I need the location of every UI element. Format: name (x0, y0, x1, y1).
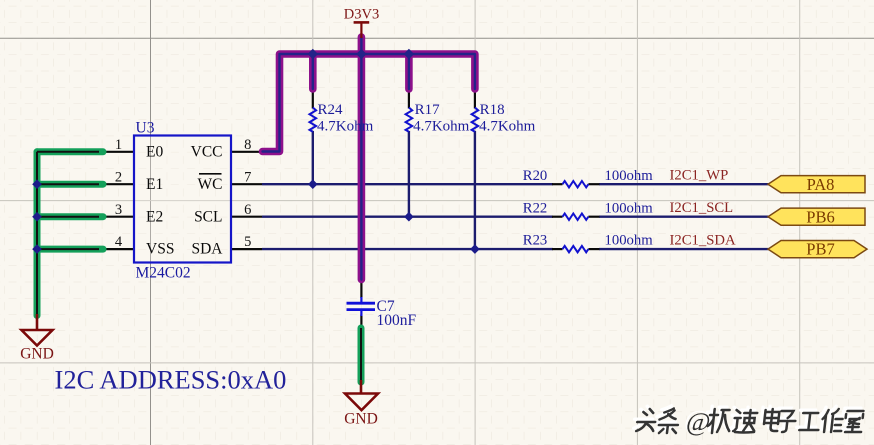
junction dots on rows (308, 179, 480, 254)
svg-text:U3: U3 (136, 120, 155, 137)
条 (658, 409, 680, 434)
pull-up resistor labels (317, 102, 536, 134)
power bus purple: main path D3V3 rail (263, 37, 475, 280)
pin stubs black: chip left pins 1-4 (101, 89, 600, 328)
wire: navy horizontal row WP (pin7 to PA8) (262, 131, 769, 249)
速 (733, 410, 758, 433)
工 (797, 410, 818, 427)
svg-text:3: 3 (115, 202, 122, 218)
wire: R24 vertical to WP row (312, 131, 314, 184)
resistor R24 zigzag (309, 108, 588, 253)
子 (774, 408, 793, 429)
chip U3 body (134, 136, 231, 263)
WC overline (199, 173, 222, 175)
svg-text:R20: R20 (523, 168, 547, 184)
svg-text:I2C ADDRESS:0xA0: I2C ADDRESS:0xA0 (55, 365, 287, 395)
svg-text:M24C02: M24C02 (136, 265, 191, 282)
capacitor C7 leads (360, 279, 362, 298)
port PB6 (768, 207, 865, 226)
作 (818, 406, 841, 429)
resistor R20 zigzag (563, 181, 589, 187)
子 (777, 411, 796, 432)
svg-text:E0: E0 (146, 143, 163, 160)
svg-text:VCC: VCC (191, 143, 223, 160)
svg-text:D3V3: D3V3 (344, 7, 379, 23)
svg-text:R23: R23 (523, 233, 547, 249)
svg-text:100ohm: 100ohm (605, 233, 654, 249)
series resistor labels (523, 168, 653, 249)
svg-text:E2: E2 (146, 208, 163, 225)
工 (799, 413, 820, 430)
svg-text:R18: R18 (480, 102, 505, 118)
svg-text:R24: R24 (318, 102, 344, 118)
svg-text:I2C1_SDA: I2C1_SDA (670, 232, 736, 248)
svg-text:4.7Kohm: 4.7Kohm (317, 118, 374, 134)
purple drop to R17 (405, 54, 413, 89)
svg-text:PB7: PB7 (806, 240, 834, 259)
作 (821, 409, 844, 432)
svg-text:2: 2 (115, 169, 122, 185)
svg-text:6: 6 (244, 202, 251, 218)
green wire C7 to GND (358, 328, 365, 382)
svg-text:SDA: SDA (191, 241, 223, 258)
svg-text:I2C1_SCL: I2C1_SCL (670, 200, 734, 216)
wire: navy horizontal row SDA (pin5 to PB7) (262, 248, 553, 250)
svg-text:WC: WC (198, 176, 223, 193)
svg-text:GND: GND (344, 411, 378, 428)
svg-text:@: @ (685, 407, 712, 436)
室 (841, 408, 860, 429)
svg-text:7: 7 (244, 169, 251, 185)
port PA8 (768, 175, 865, 194)
头 (634, 406, 655, 428)
purple central vertical to C7 (358, 37, 366, 280)
svg-text:R17: R17 (415, 102, 441, 118)
svg-text:I2C1_WP: I2C1_WP (670, 167, 729, 183)
svg-text:100nF: 100nF (377, 312, 417, 329)
svg-text:PB6: PB6 (806, 207, 834, 226)
pin stubs black: chip right pins 8-5 (231, 151, 263, 153)
svg-text:8: 8 (244, 137, 251, 153)
pull-up top leads black (312, 89, 314, 109)
svg-text:100ohm: 100ohm (605, 168, 654, 184)
resistor pin stubs R20 R22 R23 (552, 183, 563, 185)
junction dots on bus (308, 49, 415, 59)
green ground wires left (37, 152, 103, 316)
svg-text:4.7Kohm: 4.7Kohm (479, 118, 536, 134)
wire: R18 vertical to SDA row (474, 131, 476, 249)
svg-text:4.7Kohm: 4.7Kohm (413, 118, 470, 134)
port PB7 (768, 240, 867, 259)
svg-text:1: 1 (115, 137, 122, 153)
wire: navy horizontal row SCL (pin6 to PB6) (262, 215, 553, 217)
watermark dark strokes (636, 409, 864, 434)
svg-text:5: 5 (244, 234, 251, 250)
purple drop to R24 (309, 54, 317, 89)
条 (655, 406, 677, 431)
svg-text:PA8: PA8 (807, 175, 835, 194)
室 (844, 411, 863, 432)
junction dots on green vertical (32, 179, 42, 254)
ground symbol left (22, 314, 53, 346)
svg-text:VSS: VSS (146, 241, 174, 258)
ground symbol bottom (345, 380, 378, 410)
net labels (670, 167, 736, 248)
电 (763, 409, 780, 431)
svg-text:100ohm: 100ohm (605, 200, 654, 216)
pin names left (146, 143, 174, 257)
头 (636, 409, 657, 431)
极 (707, 409, 732, 433)
black core in green wires (37, 152, 99, 316)
watermark 头条@极速电子工作室 (633, 405, 864, 436)
极 (704, 406, 729, 430)
watermark white emboss (633, 406, 861, 431)
速 (730, 407, 755, 430)
capacitor C7 plates (347, 303, 376, 309)
wire: R17 vertical to SCL row (408, 131, 410, 217)
pin numbers (115, 137, 252, 250)
svg-text:4: 4 (115, 234, 123, 250)
resistor R18 zigzag (472, 108, 479, 132)
resistor R22 zigzag (563, 214, 589, 220)
电 (761, 406, 778, 428)
svg-text:SCL: SCL (194, 208, 222, 225)
pin names right (191, 143, 224, 257)
power symbol D3V3 (354, 22, 370, 38)
resistor R17 zigzag (406, 108, 413, 132)
svg-text:R22: R22 (523, 200, 547, 216)
resistor R23 zigzag (563, 246, 589, 252)
navy core lines on purple (263, 54, 475, 152)
svg-text:E1: E1 (146, 176, 163, 193)
svg-text:GND: GND (20, 346, 54, 363)
